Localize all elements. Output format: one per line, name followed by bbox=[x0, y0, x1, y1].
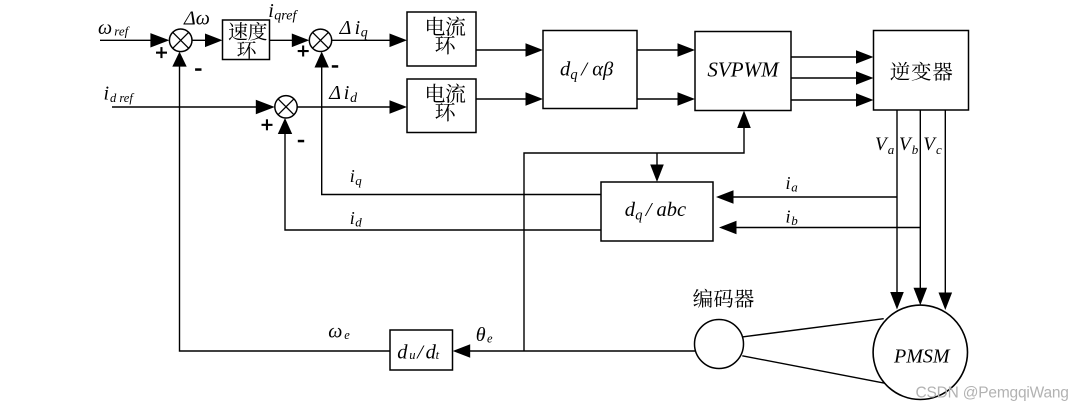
svg-text:d: d bbox=[560, 58, 571, 80]
svg-text:q: q bbox=[570, 67, 577, 83]
svg-text:i: i bbox=[344, 82, 350, 104]
label minus SJ1 bbox=[195, 68, 201, 71]
svg-text:ref: ref bbox=[114, 24, 130, 39]
svg-text:t: t bbox=[436, 348, 440, 362]
label plus SJ2 bbox=[298, 46, 309, 57]
svg-text:b: b bbox=[912, 142, 919, 157]
svg-text:CSDN @PemgqiWang: CSDN @PemgqiWang bbox=[916, 384, 1069, 401]
wire speed-loop to SJ2 bbox=[270, 34, 310, 48]
label i_q bbox=[350, 166, 363, 188]
svg-text:q: q bbox=[635, 208, 642, 224]
block SVPWM bbox=[695, 32, 791, 111]
svg-text:αβ: αβ bbox=[592, 58, 614, 80]
wire SJ1 to speed-loop bbox=[192, 34, 223, 48]
shaft coupling upper line encoder-PMSM bbox=[742, 319, 883, 337]
svg-text:qref: qref bbox=[274, 9, 298, 24]
svg-text:Δ: Δ bbox=[339, 17, 352, 39]
wire i_a feedback bbox=[716, 190, 897, 204]
svg-text:ω: ω bbox=[328, 321, 342, 343]
svg-text:i: i bbox=[786, 206, 791, 226]
svg-text:d: d bbox=[350, 91, 358, 106]
wire V_b phase line bbox=[914, 110, 928, 305]
svg-text:i: i bbox=[350, 166, 355, 186]
encoder circle bbox=[695, 320, 744, 369]
block du/dt differentiator bbox=[390, 330, 453, 370]
block current loop 2 (dian-liu-huan) bbox=[407, 79, 476, 133]
svg-text:SVPWM: SVPWM bbox=[707, 58, 780, 82]
label plus SJ3 bbox=[262, 119, 273, 130]
wire SJ3 to current-loop-2 bbox=[297, 100, 407, 114]
svg-text:PMSM: PMSM bbox=[893, 346, 951, 368]
wire dq/ab to SVPWM lower bbox=[637, 92, 695, 106]
svg-text:i: i bbox=[350, 208, 355, 228]
shaft coupling lower line encoder-PMSM bbox=[742, 356, 884, 383]
svg-text:q: q bbox=[361, 25, 368, 40]
svg-text:i: i bbox=[268, 0, 274, 22]
wire i_q feedback bbox=[315, 52, 602, 195]
label plus SJ1 bbox=[156, 47, 167, 58]
label encoder (bian-ma-qi) bbox=[693, 289, 754, 308]
wire V_c phase line bbox=[939, 110, 953, 310]
label i_a bbox=[786, 173, 799, 195]
svg-text:d: d bbox=[625, 199, 636, 221]
label i_d bbox=[350, 208, 363, 230]
svg-text:i: i bbox=[355, 17, 361, 39]
label omega_ref bbox=[98, 17, 131, 39]
wire i_d-ref input bbox=[112, 100, 275, 114]
svg-text:a: a bbox=[888, 142, 895, 157]
label V_b bbox=[899, 134, 919, 157]
wire omega_ref input bbox=[100, 33, 169, 47]
label V_c bbox=[923, 134, 942, 157]
svg-text:d: d bbox=[355, 215, 362, 230]
PMSM motor circle bbox=[873, 305, 967, 399]
wire i_d feedback bbox=[278, 118, 601, 230]
wire theta_e riser to SVPWM and dq/abc bbox=[524, 111, 751, 352]
wire i_b feedback bbox=[719, 221, 920, 235]
wire dq/ab to SVPWM upper bbox=[637, 43, 695, 57]
svg-text:a: a bbox=[791, 179, 798, 194]
block inverter (ni-bian-qi) bbox=[874, 31, 969, 111]
label minus SJ2 bbox=[332, 65, 338, 68]
svg-text:Δω: Δω bbox=[183, 7, 210, 29]
block current loop 1 (dian-liu-huan) bbox=[407, 12, 476, 66]
label i_b bbox=[786, 206, 799, 228]
label theta_e bbox=[476, 324, 493, 346]
svg-text:θ: θ bbox=[476, 324, 486, 346]
wire SJ2 to current-loop-1 bbox=[332, 34, 407, 48]
block speed loop (su-du-huan) bbox=[223, 20, 270, 60]
svg-text:abc: abc bbox=[657, 199, 687, 221]
summing junction SJ1 bbox=[169, 29, 192, 52]
block dq/abc transform bbox=[601, 182, 713, 241]
summing junction SJ3 bbox=[275, 96, 297, 118]
wire SVPWM to inverter b bbox=[791, 71, 874, 85]
wire V_a phase line bbox=[890, 110, 904, 310]
watermark CSDN bbox=[916, 384, 1069, 401]
label PMSM bbox=[893, 346, 951, 368]
label i_d-ref bbox=[104, 83, 135, 105]
svg-text:d ref: d ref bbox=[110, 91, 134, 105]
summing junction SJ2 bbox=[309, 29, 331, 51]
wire encoder theta_e output bbox=[453, 344, 696, 358]
svg-text:q: q bbox=[355, 173, 362, 188]
svg-text:c: c bbox=[936, 142, 942, 157]
svg-text:i: i bbox=[786, 173, 791, 193]
svg-text:ω: ω bbox=[98, 17, 112, 39]
wire current-loop-2 to dq/ab bbox=[476, 92, 543, 106]
wire current-loop-1 to dq/ab bbox=[476, 43, 543, 57]
wire theta_e branch into dq/abc bbox=[650, 153, 664, 182]
label minus SJ3 bbox=[298, 140, 304, 143]
label Delta-i_d bbox=[328, 82, 358, 106]
svg-text:e: e bbox=[344, 328, 350, 342]
wire omega_e feedback bbox=[172, 52, 390, 351]
svg-text:b: b bbox=[791, 213, 798, 228]
svg-text:Δ: Δ bbox=[328, 82, 341, 104]
svg-text:d: d bbox=[397, 341, 408, 363]
svg-text:i: i bbox=[104, 83, 110, 105]
label Delta-i_q bbox=[339, 17, 368, 41]
wire SVPWM to inverter a bbox=[791, 50, 874, 64]
wire SVPWM to inverter c bbox=[791, 93, 874, 107]
svg-text:e: e bbox=[487, 332, 493, 346]
svg-text:u: u bbox=[409, 348, 415, 362]
label i_qref bbox=[268, 0, 298, 24]
block dq/alpha-beta transform U_dqab bbox=[543, 31, 637, 109]
label V_a bbox=[875, 134, 895, 157]
label omega_e bbox=[328, 321, 350, 343]
label Delta-omega bbox=[183, 7, 210, 29]
